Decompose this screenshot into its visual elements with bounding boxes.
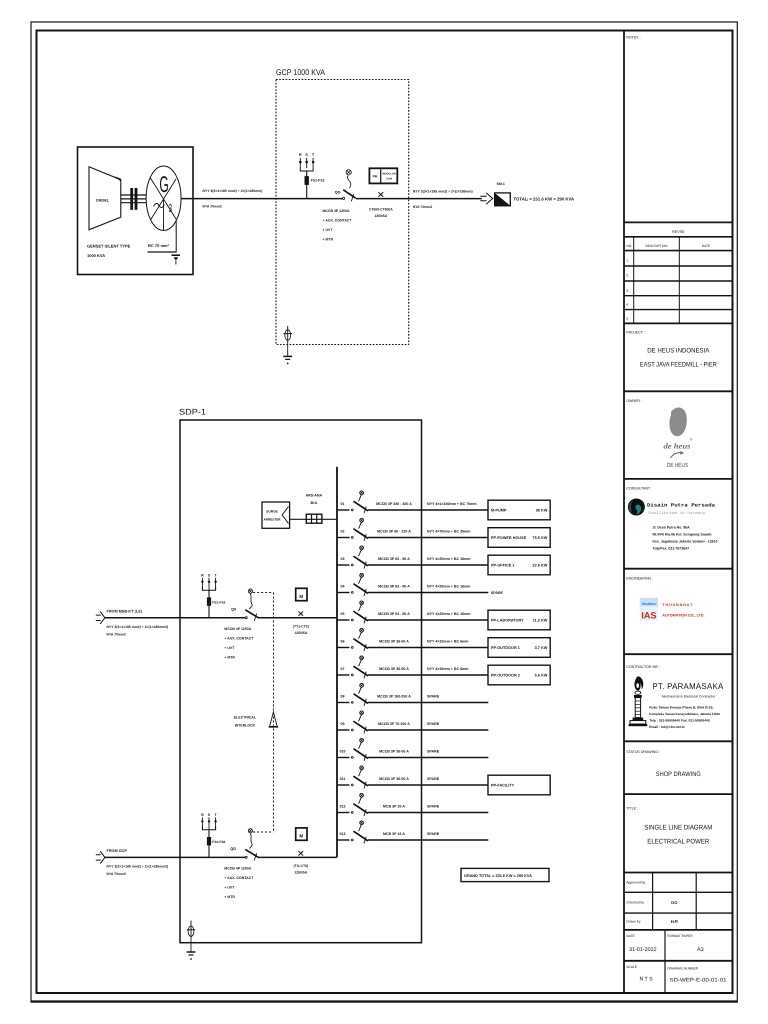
feeder row 012 cable label <box>427 805 440 809</box>
svg-text:COM: COM <box>386 178 392 181</box>
fuse FS1-FS3 in GCP <box>305 177 325 185</box>
svg-text:Ruko Taman Kenaya Phase B, Blo: Ruko Taman Kenaya Phase B, Blok B-29, <box>649 706 713 710</box>
fuse FS1-FS3 incomer <box>207 598 225 606</box>
breaker Q03 feeder <box>351 546 367 569</box>
feeder row 07 label <box>341 667 345 671</box>
breaker spec text QG <box>224 866 254 899</box>
coupling <box>131 188 137 209</box>
circuit breaker QG incomer <box>230 829 258 861</box>
feeder row 06 cable label <box>427 640 468 644</box>
svg-text:T H U A N N H A T: T H U A N N H A T <box>662 603 693 607</box>
svg-text:5.: 5. <box>626 317 629 321</box>
svg-text:NYY 4×35mm + BC 16mm: NYY 4×35mm + BC 16mm <box>427 557 470 561</box>
wire incomer to breaker <box>105 617 246 619</box>
svg-text:NYY 3(3×1×185 mm2) + 2×(1×185m: NYY 3(3×1×185 mm2) + 2×(1×185mm) <box>203 189 263 193</box>
svg-text:Checked by: Checked by <box>626 901 644 905</box>
svg-text:NYY 3(3×1×185 mm2) + 2×(1×185m: NYY 3(3×1×185 mm2) + 2×(1×185mm) <box>413 189 473 193</box>
svg-text:3.7 KW: 3.7 KW <box>535 646 548 650</box>
electrical interlock dashed link <box>234 592 278 832</box>
feeder row 05 wire from bus <box>337 619 488 621</box>
breaker Q06 rating label <box>379 639 409 643</box>
svg-text:SPARE: SPARE <box>491 591 504 595</box>
svg-text:PP-FACILITY: PP-FACILITY <box>491 784 515 788</box>
breaker Q05 feeder <box>351 601 367 624</box>
svg-text:CT600-CT800A: CT600-CT800A <box>369 208 393 212</box>
svg-text:MCB 3P 25 A: MCB 3P 25 A <box>383 804 405 808</box>
svg-text:PROJECT :: PROJECT : <box>626 331 645 335</box>
status drawing section <box>624 741 733 778</box>
svg-text:06: 06 <box>341 640 345 644</box>
svg-text:NYY 4×10mm + BC 6mm: NYY 4×10mm + BC 6mm <box>427 667 468 671</box>
svg-text:R: R <box>299 153 302 157</box>
svg-text:CONSULTANT :: CONSULTANT : <box>626 486 652 490</box>
meter M box incomer <box>296 828 307 840</box>
wire surge arrester to bus <box>290 518 337 520</box>
feeder row 07 cable label <box>427 667 468 671</box>
wire genset to GCP breaker <box>181 198 342 200</box>
feeder row 09 cable label <box>427 722 440 726</box>
svg-text:3.: 3. <box>626 288 629 292</box>
svg-text:ENGINEERING :: ENGINEERING : <box>626 576 653 580</box>
svg-text:MCB 3P 16 A: MCB 3P 16 A <box>383 832 405 836</box>
node RST phase taps in GCP <box>299 153 315 199</box>
svg-text:MCCB 3P 1250A: MCCB 3P 1250A <box>323 209 350 213</box>
feeder row 03 label <box>341 557 345 561</box>
feeder row 03 wire from bus <box>337 564 488 566</box>
svg-text:+ MTR: + MTR <box>224 655 235 659</box>
busbar SDP-1 <box>336 467 338 858</box>
feeder row 04 label <box>341 585 345 589</box>
feeder row 011 cable label <box>427 777 440 781</box>
svg-text:PP-LABORATORY: PP-LABORATORY <box>491 619 524 623</box>
svg-text:1250/5A: 1250/5A <box>294 631 307 635</box>
svg-text:MCCB 3P 80 - 125 A: MCCB 3P 80 - 125 A <box>377 529 411 533</box>
svg-text:012: 012 <box>340 805 346 809</box>
power meter PM module in GCP <box>369 168 397 183</box>
svg-text:TOTALₗ = 231.6 KW = 290 KVA: TOTALₗ = 231.6 KW = 290 KVA <box>514 196 575 201</box>
breaker Q010 feeder <box>351 738 367 761</box>
svg-text:MCCB 3P 36-50 A: MCCB 3P 36-50 A <box>379 639 409 643</box>
svg-text:+ AUX. CONTACT: + AUX. CONTACT <box>224 636 254 640</box>
svg-text:Q0: Q0 <box>231 607 236 611</box>
arrester fuse block ARS-ANA 3KA <box>306 494 323 524</box>
svg-text:MCCB 3P 70-100 A: MCCB 3P 70-100 A <box>378 722 410 726</box>
svg-text:PP-OUTDOOR 1: PP-OUTDOOR 1 <box>491 646 520 650</box>
svg-text:PP-OUTDOOR 2: PP-OUTDOOR 2 <box>491 674 520 678</box>
genset label <box>87 244 131 259</box>
svg-text:01: 01 <box>341 502 345 506</box>
svg-text:SPARE: SPARE <box>427 750 440 754</box>
wire breaker to bus <box>258 856 337 858</box>
breaker Q012 feeder <box>351 793 367 816</box>
svg-text:09: 09 <box>341 722 345 726</box>
load box M-PUMP <box>488 500 550 520</box>
feeder row 013 wire from bus <box>337 839 488 841</box>
feeder row 06 wire from bus <box>337 647 488 649</box>
svg-text:DE HEUS: DE HEUS <box>667 462 688 469</box>
feeder row 08 cable label <box>427 695 440 699</box>
grand total box <box>461 868 549 881</box>
svg-text:SDP-1: SDP-1 <box>179 408 206 417</box>
genset ground <box>148 220 181 265</box>
incoming feeder arrow FROM GCP <box>96 851 105 863</box>
breaker Q03 rating label <box>378 557 410 561</box>
svg-text:R: R <box>201 573 204 577</box>
svg-text:(TG-CT6): (TG-CT6) <box>294 864 309 868</box>
outgoing arrow to SM-1 <box>480 193 492 204</box>
svg-text:de heus: de heus <box>664 442 691 451</box>
project section <box>624 323 733 368</box>
feeder row 01 label <box>341 502 345 506</box>
svg-text:+ UVT: + UVT <box>323 228 334 232</box>
svg-text:MCCB 3P 36-50 A: MCCB 3P 36-50 A <box>379 667 409 671</box>
notes section <box>626 36 640 40</box>
svg-text:+ MTR: + MTR <box>224 895 235 899</box>
svg-text:ELECTRICAL POWER: ELECTRICAL POWER <box>647 839 709 846</box>
load box PP-OUTDOOR 2 <box>488 665 550 685</box>
svg-text:FS1-FS3: FS1-FS3 <box>311 179 325 183</box>
svg-text:2.: 2. <box>626 274 629 278</box>
meter M box incomer <box>296 588 307 600</box>
svg-text:DIESEL: DIESEL <box>96 199 110 203</box>
feeder row 08 wire from bus <box>337 702 488 704</box>
svg-text:NOTES :: NOTES : <box>626 36 640 40</box>
svg-text:Approved by: Approved by <box>626 881 645 885</box>
svg-text:+ AUX. CONTACT: + AUX. CONTACT <box>224 876 254 880</box>
svg-text:PP-POWER HOUSE: PP-POWER HOUSE <box>491 536 527 540</box>
breaker Q06 feeder <box>351 628 367 651</box>
feeder row 09 wire from bus <box>337 729 488 731</box>
svg-text:SURGE: SURGE <box>266 510 279 514</box>
breaker Q01 feeder <box>351 491 367 514</box>
breaker Q07 feeder <box>351 656 367 679</box>
svg-text:NYY 4×10mm + BC 6mm: NYY 4×10mm + BC 6mm <box>427 640 468 644</box>
svg-text:Soultion: Soultion <box>642 602 656 606</box>
svg-text:SHOP DRAWING: SHOP DRAWING <box>656 771 701 778</box>
svg-text:SPARE: SPARE <box>427 805 440 809</box>
svg-text:+ UVT: + UVT <box>224 885 235 889</box>
svg-text:4.: 4. <box>626 303 629 307</box>
svg-text:Rt.004/ Rw.06 Kel. Serapong Sa: Rt.004/ Rw.06 Kel. Serapong Sawah <box>653 533 712 537</box>
svg-text:010: 010 <box>340 750 346 754</box>
breaker spec text Q0 <box>224 627 254 660</box>
current transformer (TT1-CT3) <box>293 612 309 635</box>
svg-text:013: 013 <box>340 832 346 836</box>
wire breaker to bus <box>258 617 337 619</box>
breaker Q04 rating label <box>378 584 410 588</box>
svg-text:SCALE: SCALE <box>626 965 638 969</box>
svg-text:NYY 3(3×1×185 mm2) + 2×(1×185m: NYY 3(3×1×185 mm2) + 2×(1×185mm2) <box>107 625 169 629</box>
svg-text:SD-WEP-E-00-01-01: SD-WEP-E-00-01-01 <box>670 978 727 984</box>
GCP 1000 KVA panel boundary <box>276 68 409 345</box>
feeder row 02 wire from bus <box>337 537 488 539</box>
svg-text:GG: GG <box>671 900 678 905</box>
svg-text:+ AUX. CONTACT: + AUX. CONTACT <box>323 219 353 223</box>
feeder row 02 cable label <box>427 530 470 534</box>
load box PP-OFFICE 1 <box>488 555 550 575</box>
feeder row 010 wire from bus <box>337 757 488 759</box>
load box PP-LABORATORY <box>488 610 550 630</box>
feeder row 04 cable label <box>427 585 470 589</box>
generator G1 symbol <box>146 166 181 230</box>
feeder row 04 spare end label <box>491 591 504 595</box>
svg-text:FS4-FS6: FS4-FS6 <box>212 840 225 844</box>
svg-text:1250/5A: 1250/5A <box>294 870 307 874</box>
feeder row 012 label <box>340 805 346 809</box>
svg-text:04: 04 <box>341 585 345 589</box>
breaker Q013 rating label <box>383 832 405 836</box>
svg-text:OWNER :: OWNER : <box>626 399 642 403</box>
svg-text:INTERLOCK: INTERLOCK <box>235 724 256 728</box>
breaker Q04 feeder <box>351 573 367 596</box>
cable label GCP to SM-1 <box>413 189 473 209</box>
svg-text:11.2 KW: 11.2 KW <box>533 619 548 623</box>
svg-text:M: M <box>299 594 303 599</box>
svg-text:A3: A3 <box>697 947 704 953</box>
svg-text:DE HEUS INDONESIA: DE HEUS INDONESIA <box>647 348 710 355</box>
title block left boundary <box>623 31 625 994</box>
label FROM GCP <box>107 849 128 853</box>
breaker Q05 rating label <box>378 612 410 616</box>
svg-text:1000 KVA: 1000 KVA <box>87 253 105 258</box>
svg-text:GRAND TOTAL = 231.6 KW = 290: GRAND TOTAL = 231.6 KW = 290 KVA <box>464 874 532 878</box>
svg-text:DATE: DATE <box>626 934 635 938</box>
svg-text:ARS-ANA: ARS-ANA <box>306 494 323 498</box>
svg-text:NYA 70mm2: NYA 70mm2 <box>203 205 222 209</box>
QG breaker spec text <box>323 209 353 242</box>
total load label <box>514 196 575 201</box>
engineering section IAS logo <box>624 569 733 621</box>
svg-text:03: 03 <box>341 557 345 561</box>
feeder row 01 wire from bus <box>337 509 488 511</box>
svg-text:FROM GCP: FROM GCP <box>107 849 128 853</box>
svg-text:Drawn by: Drawn by <box>626 920 641 924</box>
svg-text:FROM MSB-KT (LS): FROM MSB-KT (LS) <box>107 609 143 613</box>
ground electrode SDP-1 <box>187 921 196 960</box>
svg-text:Kec. Jagakarsa Jakarta Selatan: Kec. Jagakarsa Jakarta Selatan - 12610 <box>653 540 718 544</box>
feeder row 013 cable label <box>427 832 440 836</box>
svg-text:07: 07 <box>341 667 345 671</box>
svg-text:Disain Putra Persada: Disain Putra Persada <box>647 503 715 509</box>
svg-text:SPARE: SPARE <box>427 832 440 836</box>
svg-text:+ UVT: + UVT <box>224 646 235 650</box>
svg-text:Jl. Desa Putra No. 86A: Jl. Desa Putra No. 86A <box>653 526 691 530</box>
svg-text:DATE: DATE <box>702 244 710 248</box>
svg-text:NYY 4×1×240mm + BC 70mm: NYY 4×1×240mm + BC 70mm <box>427 502 477 506</box>
feeder row 013 label <box>340 832 346 836</box>
svg-text:MCCB 3P 63 - 80 A: MCCB 3P 63 - 80 A <box>378 557 410 561</box>
svg-text:Telp : 021-58905440 Fax. 021-: Telp : 021-58905440 Fax. 021-58905440 <box>649 719 710 723</box>
breaker Q02 feeder <box>351 518 367 541</box>
circuit breaker Q0 incomer <box>231 589 258 621</box>
svg-text:DRAWING NUMBER: DRAWING NUMBER <box>667 967 699 971</box>
svg-text:Kompleks Taman Kenaya Bintaro,: Kompleks Taman Kenaya Bintaro, Jakarta 1… <box>649 712 720 716</box>
svg-text:(TT1-CT3): (TT1-CT3) <box>293 624 309 628</box>
breaker Q09 feeder <box>351 711 367 734</box>
svg-text:05: 05 <box>341 612 345 616</box>
svg-text:DESCRIPTION: DESCRIPTION <box>646 244 668 248</box>
breaker Q01 rating label <box>376 502 412 506</box>
feeder row 011 wire from bus <box>337 784 488 786</box>
breaker Q02 rating label <box>377 529 411 533</box>
node RST phase taps incomer <box>201 573 217 618</box>
svg-text:NO: NO <box>626 244 631 248</box>
svg-text:NYA 70mm2: NYA 70mm2 <box>107 872 126 876</box>
fuse FS4-FS6 incomer <box>207 837 225 845</box>
approval table <box>624 873 733 930</box>
svg-text:FORMAT PAPER: FORMAT PAPER <box>667 934 693 938</box>
svg-text:STATUS DRAWING :: STATUS DRAWING : <box>626 750 660 754</box>
feeder row 03 cable label <box>427 557 470 561</box>
svg-text:SPARE: SPARE <box>427 695 440 699</box>
feeder row 04 wire from bus <box>337 592 488 594</box>
svg-text:N T S: N T S <box>639 977 653 983</box>
svg-text:1250/5A: 1250/5A <box>374 214 387 218</box>
svg-text:3KA: 3KA <box>310 501 318 505</box>
consultant section Disain Putra Persada <box>624 479 733 551</box>
svg-text:1.: 1. <box>626 259 629 263</box>
breaker Q012 rating label <box>383 804 405 808</box>
scale and drawing number row <box>624 961 733 993</box>
feeder row 010 cable label <box>427 750 440 754</box>
diesel engine prime mover <box>89 167 121 230</box>
svg-text:011: 011 <box>340 777 346 781</box>
svg-text:GENSET SILENT TYPE: GENSET SILENT TYPE <box>87 244 131 249</box>
wire incomer to breaker <box>105 856 246 858</box>
svg-text:TITLE :: TITLE : <box>626 807 638 811</box>
svg-text:SPARE: SPARE <box>427 722 440 726</box>
title section <box>624 794 733 845</box>
svg-text:REVISI: REVISI <box>672 230 684 234</box>
svg-text:M: M <box>299 833 303 838</box>
svg-text:31-01-2022: 31-01-2022 <box>629 947 657 953</box>
svg-text:EAST JAVA FEEDMILL - PIER: EAST JAVA FEEDMILL - PIER <box>640 362 717 369</box>
genset enclosure box <box>78 147 194 275</box>
feeder row 05 label <box>341 612 345 616</box>
load box PP-FACILITY <box>488 775 550 795</box>
svg-text:IAS: IAS <box>641 611 656 621</box>
current transformer CT in GCP <box>369 192 393 218</box>
svg-text:PT. PARAMASAKA: PT. PARAMASAKA <box>653 681 724 691</box>
svg-text:NYY 4×25mm + BC 16mm: NYY 4×25mm + BC 16mm <box>427 585 470 589</box>
revision table <box>624 222 733 323</box>
svg-text:SM-1: SM-1 <box>497 182 505 186</box>
node SM-1 distribution symbol <box>495 182 511 206</box>
svg-text:Equilibrium in harmony: Equilibrium in harmony <box>649 511 707 516</box>
svg-text:MCCB 3P 160-250 A: MCCB 3P 160-250 A <box>377 694 411 698</box>
svg-text:NYY 4×25mm + BC 16mm: NYY 4×25mm + BC 16mm <box>427 612 470 616</box>
shaft wires engine to generator <box>121 195 146 203</box>
surge arrester SA1 <box>262 502 290 528</box>
svg-text:BC 70 mm²: BC 70 mm² <box>148 243 170 248</box>
current transformer (TG-CT6) <box>294 851 309 874</box>
svg-text:AUTOMATION CO., LTD.: AUTOMATION CO., LTD. <box>662 613 704 617</box>
cable label incomer <box>107 625 169 637</box>
feeder row 010 label <box>340 750 346 754</box>
svg-text:SINGLE LINE DIAGRAM: SINGLE LINE DIAGRAM <box>644 825 712 832</box>
svg-text:MCCB 3P 63 - 80 A: MCCB 3P 63 - 80 A <box>378 612 410 616</box>
svg-text:NYA 70mm2: NYA 70mm2 <box>107 632 126 636</box>
incoming feeder arrow FROM MSB-KT (LS) <box>96 612 105 624</box>
breaker Q011 rating label <box>379 777 409 781</box>
svg-text:PM: PM <box>373 175 378 179</box>
breaker Q08 rating label <box>377 694 411 698</box>
svg-text:MCCB 4P 1250A: MCCB 4P 1250A <box>224 866 251 870</box>
load box PP-OUTDOOR 1 <box>488 638 550 658</box>
feeder row 011 label <box>340 777 346 781</box>
svg-text:02: 02 <box>341 530 345 534</box>
feeder row 01 cable label <box>427 502 477 506</box>
svg-text:MCCB 3P 36-50 A: MCCB 3P 36-50 A <box>379 749 409 753</box>
breaker Q07 rating label <box>379 667 409 671</box>
cable label incomer <box>107 864 169 876</box>
breaker Q010 rating label <box>379 749 409 753</box>
svg-text:ELECTRICAL: ELECTRICAL <box>234 716 257 720</box>
breaker Q013 feeder <box>351 821 367 844</box>
svg-text:MODULAR: MODULAR <box>382 173 395 176</box>
svg-text:MCCB 3P 63 - 80 A: MCCB 3P 63 - 80 A <box>378 584 410 588</box>
breaker Q08 feeder <box>351 683 367 706</box>
svg-text:MCCB 3P 36-50 A: MCCB 3P 36-50 A <box>379 777 409 781</box>
svg-text:MCCB 3P 240 - 400 A: MCCB 3P 240 - 400 A <box>376 502 412 506</box>
svg-text:75.5 KW: 75.5 KW <box>533 536 548 540</box>
feeder row 012 wire from bus <box>337 812 488 814</box>
feeder row 07 wire from bus <box>337 674 488 676</box>
svg-text:FS1-FS3: FS1-FS3 <box>212 600 225 604</box>
svg-text:ARRESTER: ARRESTER <box>263 518 281 522</box>
load box PP-POWER HOUSE <box>488 528 550 548</box>
SDP-1 panel boundary <box>179 408 422 943</box>
circuit breaker QG in GCP <box>335 170 355 202</box>
svg-text:Mechanical & Electrical Contra: Mechanical & Electrical Contractor <box>662 695 716 699</box>
owner section with de heus logo <box>624 391 733 469</box>
contractor section PT PARAMASAKA <box>624 654 733 729</box>
svg-text:NYY 4×70mm + BC 35mm: NYY 4×70mm + BC 35mm <box>427 530 470 534</box>
svg-text:NYY 3(3×1×185 mm2) + 2×(1×185m: NYY 3(3×1×185 mm2) + 2×(1×185mm2) <box>107 864 169 868</box>
svg-text:PP-OFFICE 1: PP-OFFICE 1 <box>491 564 514 568</box>
svg-text:QG: QG <box>230 847 236 851</box>
svg-text:Telp/Fax. 021-7873647: Telp/Fax. 021-7873647 <box>653 547 690 551</box>
svg-text:90 KW: 90 KW <box>536 509 548 513</box>
svg-text:GCP 1000 KVA: GCP 1000 KVA <box>276 68 325 77</box>
svg-text:Email : tek@cbn.net.id: Email : tek@cbn.net.id <box>649 725 684 729</box>
breaker Q09 rating label <box>378 722 410 726</box>
feeder row 08 label <box>341 695 345 699</box>
feeder row 02 label <box>341 530 345 534</box>
svg-text:+ MTR: + MTR <box>323 238 334 242</box>
svg-text:NYA 70mm2: NYA 70mm2 <box>413 205 432 209</box>
svg-text:G: G <box>159 171 168 198</box>
wire QG to CT <box>356 198 482 200</box>
svg-text:M-PUMP: M-PUMP <box>491 509 507 513</box>
cable label genset to GCP <box>203 189 263 209</box>
svg-text:SPARE: SPARE <box>427 777 440 781</box>
feeder row 05 cable label <box>427 612 470 616</box>
feeder row 06 label <box>341 640 345 644</box>
label FROM MSB-KT (LS) <box>107 609 143 613</box>
genset earthing conductor label BC 70 mm2 <box>148 243 170 248</box>
svg-text:MCCB 4P 1250A: MCCB 4P 1250A <box>224 627 251 631</box>
svg-text:QG: QG <box>335 191 341 195</box>
svg-text:H.R: H.R <box>671 919 678 924</box>
svg-text:22.6 KW: 22.6 KW <box>533 564 548 568</box>
svg-text:S: S <box>305 153 308 157</box>
date and format row <box>624 930 733 961</box>
node RST phase taps incomer <box>201 813 217 858</box>
breaker Q011 feeder <box>351 766 367 789</box>
svg-text:08: 08 <box>341 695 345 699</box>
ground electrode in GCP <box>283 326 292 365</box>
